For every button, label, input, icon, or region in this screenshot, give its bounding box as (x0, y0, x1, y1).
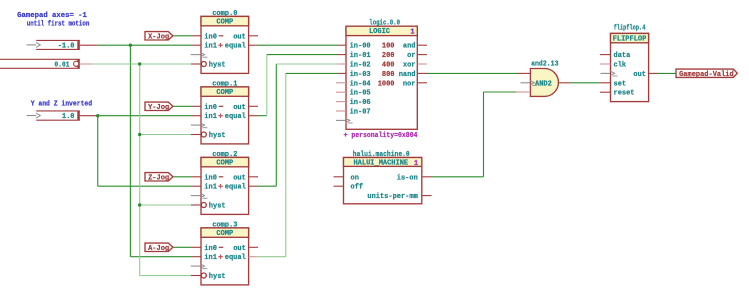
svg-text:flipflop.4: flipflop.4 (614, 25, 646, 33)
svg-text:hyst: hyst (209, 273, 226, 281)
svg-text:A-Jog: A-Jog (148, 245, 169, 253)
svg-text:in-02: in-02 (350, 62, 371, 70)
svg-text:equal: equal (225, 254, 246, 262)
AND gate and2.13 (516, 61, 571, 97)
svg-text:reset: reset (614, 90, 635, 98)
component flipflop.4 (600, 25, 658, 102)
wire: 0.01 to comp.3 hyst (140, 275, 191, 277)
comparator comp.1 (191, 80, 258, 143)
comparator comp.0 (191, 10, 258, 74)
constant 1.0 (27, 111, 80, 121)
wire: 0.01 to comp.0 hyst (80, 63, 191, 65)
svg-text:and2.13: and2.13 (531, 61, 558, 69)
svg-text:out: out (633, 71, 646, 79)
svg-text:in-06: in-06 (350, 99, 371, 107)
wire: 1.0 branch down to comp.2 in1 (98, 116, 191, 187)
svg-text:100: 100 (382, 43, 395, 51)
svg-text:in1: in1 (204, 43, 217, 51)
wire: flipflop out to Gamepad-Valid (658, 72, 677, 74)
svg-text:hyst: hyst (209, 132, 226, 140)
wire: -1.0 to comp.0 in1 (80, 44, 191, 46)
svg-text:in-05: in-05 (350, 90, 371, 98)
svg-text:in-01: in-01 (350, 52, 371, 60)
svg-text:halui.machine.0: halui.machine.0 (353, 151, 410, 159)
junction: 0.01 net at comp.2 (138, 203, 141, 206)
svg-text:comp.3: comp.3 (212, 221, 237, 229)
svg-text:personality=0x804: personality=0x804 (351, 132, 417, 140)
comparator comp.3 (191, 221, 258, 285)
wire: 0.01 vertical branch (139, 64, 141, 276)
svg-text:data: data (614, 52, 632, 60)
svg-text:comp.1: comp.1 (212, 80, 237, 88)
svg-text:200: 200 (382, 52, 395, 60)
svg-text:1: 1 (410, 28, 414, 36)
junction: -1.0 net (129, 44, 132, 47)
svg-text:until first motion: until first motion (27, 20, 90, 28)
wire: comp.2 equal to logic in-02 (258, 64, 338, 186)
svg-text:COMP: COMP (216, 19, 233, 27)
svg-text:in0: in0 (204, 33, 217, 41)
note: gamepad axes comment (17, 12, 89, 28)
svg-text:hyst: hyst (209, 203, 226, 211)
svg-text:Gamepad axes= -1: Gamepad axes= -1 (17, 12, 87, 20)
svg-text:set: set (614, 80, 627, 88)
note: Y and Z inverted (31, 100, 92, 108)
constant 0.01 (0, 59, 80, 69)
svg-text:in-03: in-03 (350, 71, 371, 79)
svg-text:equal: equal (225, 43, 246, 51)
svg-text:1: 1 (414, 160, 418, 168)
svg-text:logic.0.0: logic.0.0 (369, 20, 400, 28)
wire: X-Jog to comp.0 in0 (173, 35, 191, 37)
svg-text:out: out (233, 33, 246, 41)
svg-text:in0: in0 (204, 104, 217, 112)
svg-text:is-on: is-on (397, 174, 418, 182)
svg-text:COMP: COMP (216, 230, 233, 238)
svg-text:COMP: COMP (216, 160, 233, 168)
svg-text:+: + (344, 132, 348, 140)
svg-text:400: 400 (382, 62, 395, 70)
wire: A-Jog to comp.3 in0 (173, 246, 191, 248)
wire: comp.1 equal to logic in-01 (258, 55, 338, 116)
svg-text:X-Jog: X-Jog (148, 33, 169, 41)
svg-text:FLIPFLOP: FLIPFLOP (613, 36, 647, 44)
net label Y-Jog (145, 102, 173, 112)
net label Z-Jog (145, 173, 173, 183)
svg-text:LOGIC: LOGIC (369, 28, 390, 36)
svg-text:800: 800 (382, 71, 395, 79)
svg-text:out: out (233, 104, 246, 112)
component halui.machine.0 (334, 151, 432, 204)
wire: -1.0 branch down to comp.3 in1 (130, 45, 191, 257)
svg-text:-1.0: -1.0 (58, 43, 75, 51)
svg-text:hyst: hyst (209, 62, 226, 70)
junction: 0.01 net at comp.0 (138, 62, 141, 65)
svg-text:comp.0: comp.0 (212, 10, 237, 18)
svg-text:Z-Jog: Z-Jog (148, 174, 169, 182)
wire: 0.01 to comp.1 hyst (140, 134, 191, 136)
svg-text:out: out (233, 174, 246, 182)
wire: logic nand output to and2 input 1 (427, 72, 518, 74)
svg-text:in0: in0 (204, 245, 217, 253)
svg-text:Gamepad-Valid: Gamepad-Valid (679, 71, 734, 79)
comparator comp.2 (191, 151, 258, 215)
constant -1.0 (27, 40, 80, 50)
svg-text:1.0: 1.0 (62, 113, 75, 121)
svg-text:COMP: COMP (216, 89, 233, 97)
svg-text:AND2: AND2 (535, 80, 552, 88)
junction: 1.0 net (96, 114, 99, 117)
svg-text:on: on (351, 174, 359, 182)
svg-text:out: out (233, 245, 246, 253)
svg-text:off: off (351, 184, 364, 192)
net label Gamepad-Valid (676, 69, 737, 79)
svg-text:in1: in1 (204, 184, 217, 192)
svg-text:nor: nor (403, 80, 416, 88)
svg-text:and: and (403, 43, 416, 51)
logic gate component logic.0.0 (336, 20, 427, 130)
svg-text:in-04: in-04 (350, 80, 371, 88)
svg-text:1000: 1000 (378, 80, 395, 88)
svg-text:0.01: 0.01 (55, 61, 70, 69)
svg-text:nand: nand (399, 71, 416, 79)
wire: and2 output to flipflop set (571, 82, 600, 84)
svg-text:clk: clk (614, 62, 627, 70)
svg-text:in1: in1 (204, 254, 217, 262)
svg-text:xor: xor (403, 62, 416, 70)
personality attribute text (344, 132, 418, 140)
svg-text:Y-Jog: Y-Jog (148, 104, 169, 112)
wire: 1.0 to comp.1 in1 (80, 115, 191, 117)
wire: Y-Jog to comp.1 in0 (173, 105, 191, 107)
svg-text:equal: equal (225, 113, 246, 121)
svg-text:units-per-mm: units-per-mm (367, 193, 417, 201)
junction: 0.01 net at comp.1 (138, 133, 141, 136)
svg-text:in-00: in-00 (350, 43, 371, 51)
svg-text:Y and Z inverted: Y and Z inverted (31, 100, 92, 108)
wire: halui is-on to and2 input 2 (432, 92, 517, 177)
svg-text:in0: in0 (204, 174, 217, 182)
net label A-Jog (145, 243, 173, 253)
svg-text:or: or (407, 52, 415, 60)
svg-text:in-07: in-07 (350, 109, 371, 117)
svg-text:in1: in1 (204, 113, 217, 121)
svg-text:HALUI_MACHINE: HALUI_MACHINE (353, 160, 408, 168)
wire: comp.0 equal to logic in-00 (258, 44, 338, 46)
wire: 0.01 to comp.2 hyst (140, 204, 191, 206)
svg-text:comp.2: comp.2 (212, 151, 237, 159)
net label X-Jog (145, 32, 173, 42)
wire: comp.3 equal to logic in-03 (258, 73, 338, 256)
svg-text:equal: equal (225, 184, 246, 192)
wire: Z-Jog to comp.2 in0 (173, 176, 191, 178)
